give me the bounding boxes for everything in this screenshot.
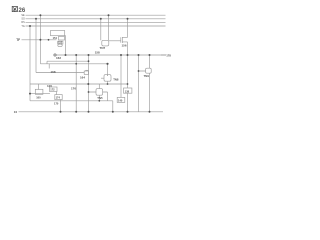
svg-text:140: 140: [118, 98, 123, 102]
svg-text:10: 10: [14, 110, 18, 114]
svg-text:172: 172: [50, 88, 55, 92]
svg-text:178: 178: [166, 54, 171, 58]
svg-text:TN9: TN9: [144, 74, 150, 78]
svg-text:TF: TF: [16, 38, 20, 42]
svg-text:TN8: TN8: [113, 77, 119, 81]
svg-text:158: 158: [95, 50, 100, 54]
svg-text:TN5: TN5: [97, 96, 103, 100]
svg-text:156: 156: [122, 44, 127, 48]
svg-text:RS: RS: [21, 21, 25, 24]
svg-text:152: 152: [58, 42, 63, 45]
svg-text:176: 176: [71, 87, 76, 91]
svg-text:TG: TG: [21, 25, 24, 28]
svg-text:TN7: TN7: [100, 46, 106, 50]
svg-text:170: 170: [54, 102, 59, 106]
svg-text:120: 120: [47, 84, 52, 88]
svg-text:164: 164: [80, 76, 85, 80]
svg-text:162: 162: [56, 56, 61, 60]
svg-text:168: 168: [51, 70, 56, 74]
svg-text:26: 26: [19, 8, 26, 14]
svg-text:154: 154: [53, 36, 58, 40]
svg-text:138: 138: [125, 89, 130, 93]
svg-text:174: 174: [56, 95, 61, 99]
svg-text:SO: SO: [21, 18, 25, 21]
svg-text:160: 160: [36, 95, 41, 99]
svg-text:SE: SE: [21, 14, 25, 17]
